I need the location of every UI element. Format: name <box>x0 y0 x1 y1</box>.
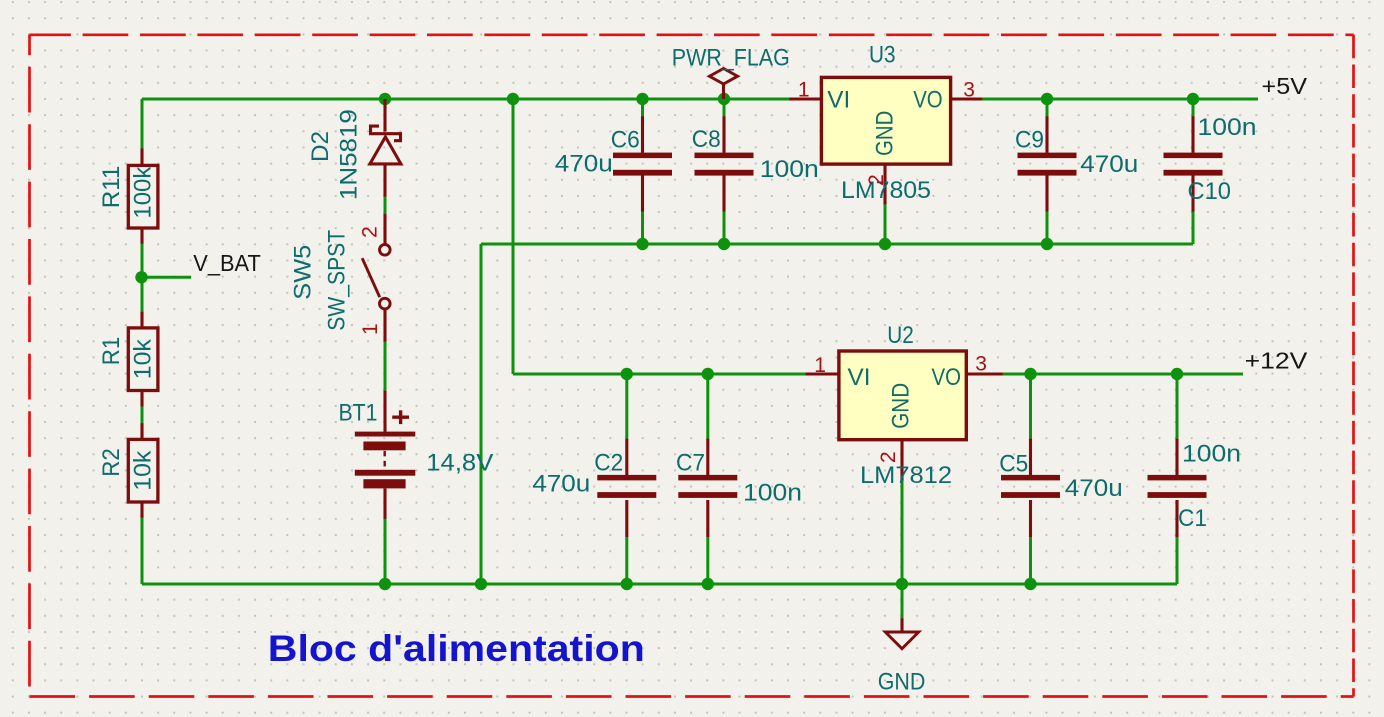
svg-text:2: 2 <box>877 451 900 463</box>
svg-text:BT1: BT1 <box>339 400 378 427</box>
svg-text:V_BAT: V_BAT <box>193 250 260 276</box>
svg-text:VI: VI <box>848 364 871 391</box>
svg-text:2: 2 <box>358 226 381 238</box>
svg-text:470u: 470u <box>1080 151 1138 178</box>
svg-text:470u: 470u <box>1065 475 1123 502</box>
svg-text:C9: C9 <box>1015 126 1044 153</box>
svg-text:470u: 470u <box>532 470 590 497</box>
svg-text:R11: R11 <box>98 166 125 209</box>
svg-text:SW_SPST: SW_SPST <box>324 230 351 331</box>
svg-text:R1: R1 <box>98 337 125 366</box>
svg-text:VI: VI <box>827 86 850 113</box>
svg-text:VO: VO <box>913 86 943 113</box>
svg-text:100n: 100n <box>743 479 802 506</box>
svg-text:100n: 100n <box>1182 440 1241 467</box>
svg-text:3: 3 <box>975 352 987 375</box>
svg-text:1: 1 <box>814 354 826 377</box>
svg-text:LM7812: LM7812 <box>860 462 952 489</box>
svg-text:C5: C5 <box>999 450 1028 477</box>
svg-text:+5V: +5V <box>1262 73 1308 99</box>
svg-text:PWR_FLAG: PWR_FLAG <box>672 44 790 71</box>
svg-text:2: 2 <box>865 174 888 186</box>
svg-text:U2: U2 <box>887 322 914 349</box>
svg-text:1N5819: 1N5819 <box>335 109 362 200</box>
svg-text:C10: C10 <box>1188 178 1232 205</box>
svg-text:100n: 100n <box>1198 114 1257 141</box>
svg-text:Bloc d'alimentation: Bloc d'alimentation <box>268 628 645 669</box>
svg-text:1: 1 <box>798 79 810 102</box>
svg-text:+12V: +12V <box>1245 347 1308 373</box>
svg-text:U3: U3 <box>869 41 896 68</box>
svg-text:100n: 100n <box>760 156 819 183</box>
svg-text:C2: C2 <box>594 450 623 477</box>
svg-text:GND: GND <box>878 668 926 695</box>
svg-text:GND: GND <box>887 383 914 429</box>
svg-text:10k: 10k <box>129 450 156 491</box>
svg-text:R2: R2 <box>98 448 125 477</box>
svg-text:14,8V: 14,8V <box>426 449 493 476</box>
svg-text:470u: 470u <box>555 150 613 177</box>
svg-text:VO: VO <box>932 364 962 391</box>
svg-text:C8: C8 <box>692 126 721 153</box>
svg-text:3: 3 <box>963 78 975 101</box>
svg-text:10k: 10k <box>129 338 156 379</box>
svg-text:C7: C7 <box>676 450 705 477</box>
svg-text:1: 1 <box>359 323 382 335</box>
svg-text:SW5: SW5 <box>290 245 317 300</box>
svg-text:GND: GND <box>872 111 899 156</box>
svg-text:C6: C6 <box>611 126 640 153</box>
svg-text:100k: 100k <box>129 166 156 219</box>
svg-text:D2: D2 <box>307 131 334 162</box>
svg-text:C1: C1 <box>1178 505 1207 532</box>
